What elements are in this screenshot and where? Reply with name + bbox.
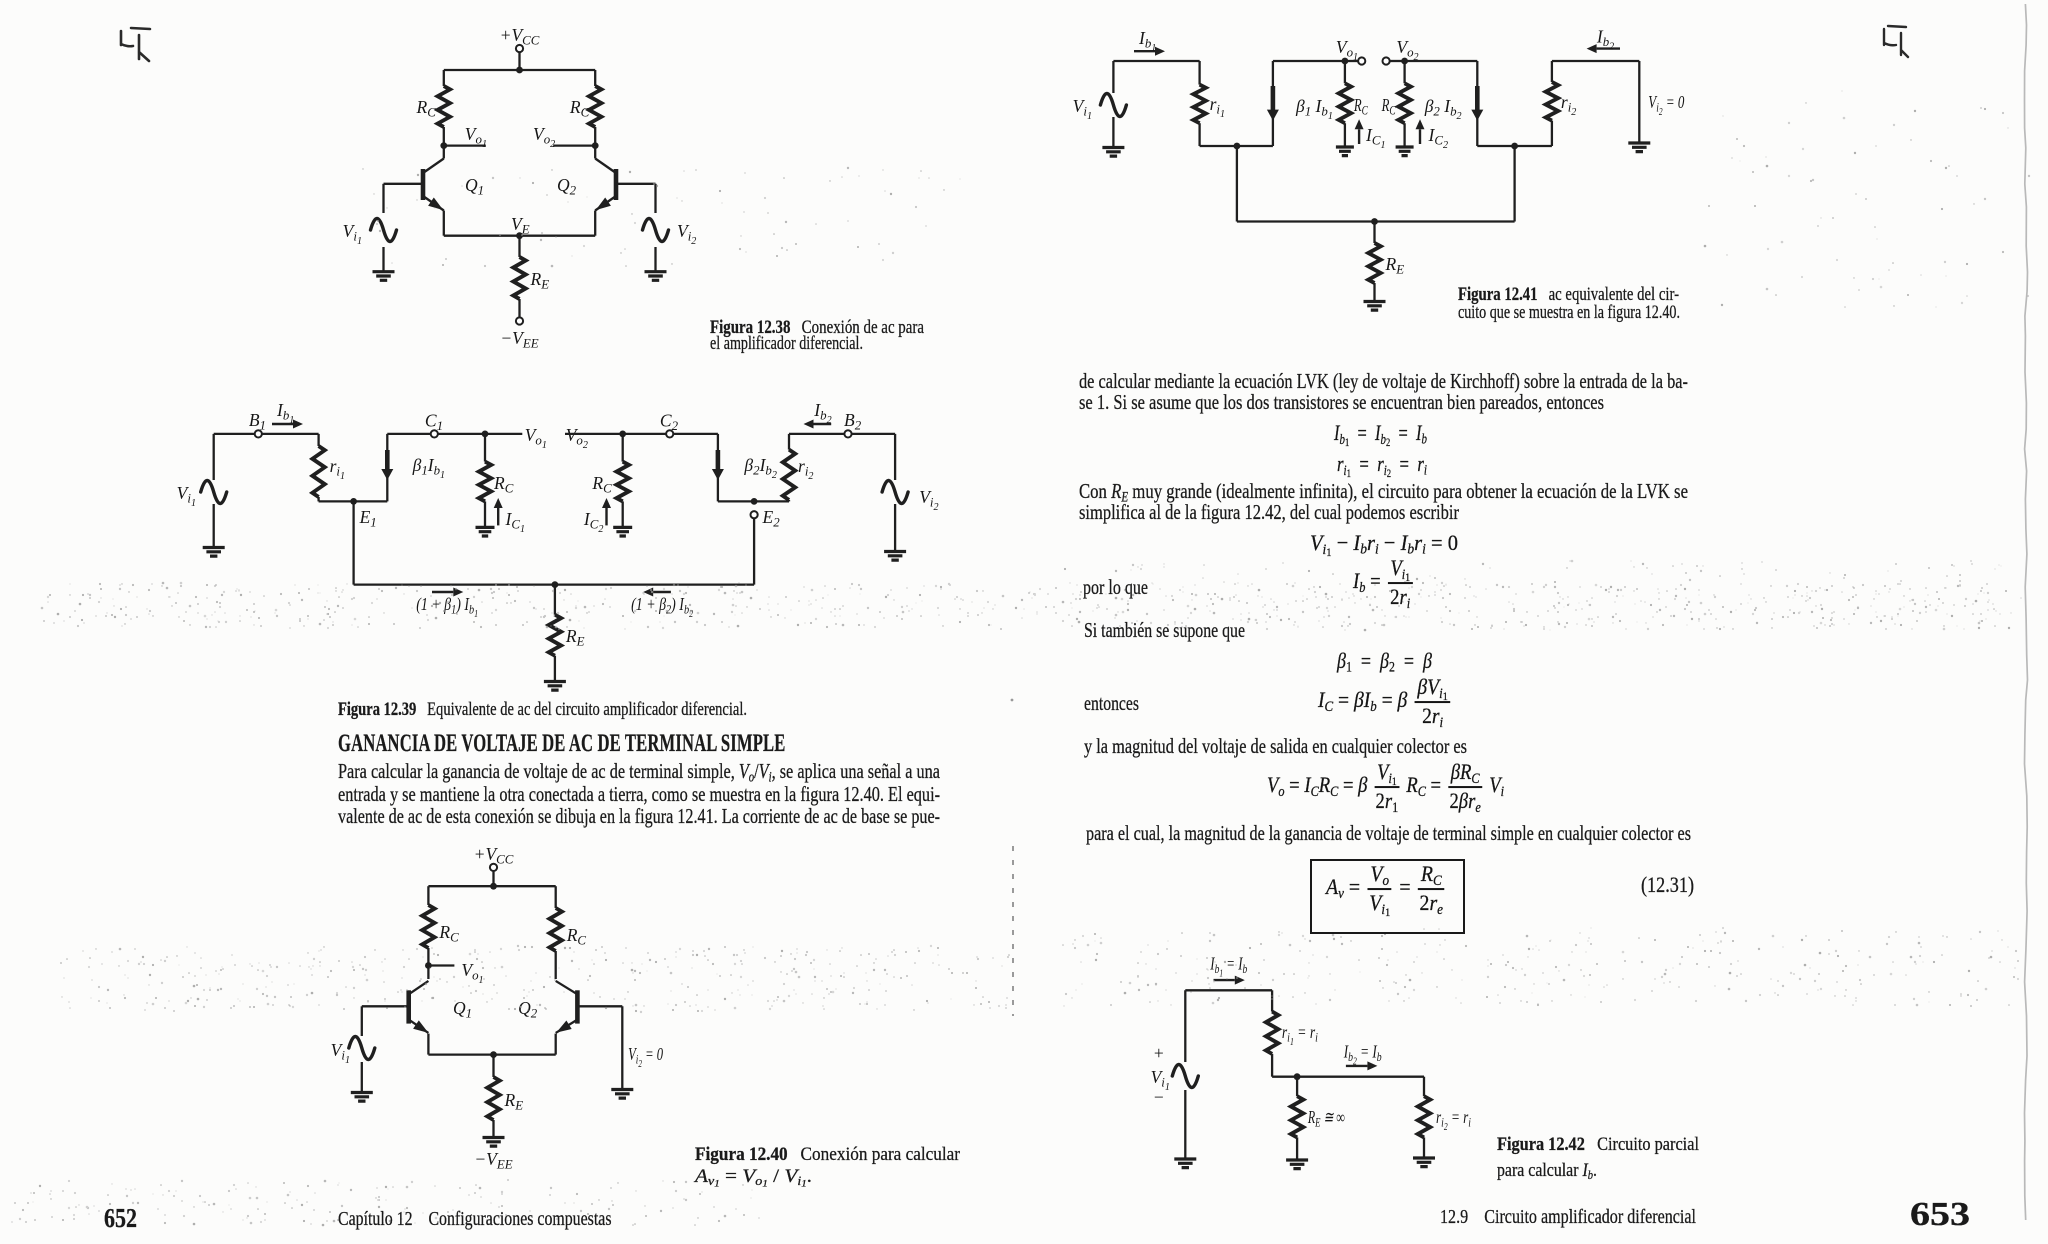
- ground RE (Fig 12.42): [1286, 1160, 1308, 1169]
- svg-text:RC: RC: [1381, 95, 1396, 118]
- svg-text:(1 + β2) Ib2: (1 + β2) Ib2: [631, 594, 693, 620]
- svg-text:ri1: ri1: [1210, 94, 1225, 120]
- svg-text:RC: RC: [493, 473, 514, 496]
- ground Vi1 (Fig 12.40): [351, 1093, 373, 1102]
- wire RC2 to node Vo2 (Fig 12.38): [594, 127, 596, 146]
- wire ri2 to B2 (Fig 12.39): [789, 434, 844, 450]
- svg-text:IC2: IC2: [583, 509, 603, 535]
- resistor RC1 (Fig 12.41): [1339, 61, 1368, 123]
- resistor RE infinite (Fig 12.42): [1291, 1096, 1345, 1137]
- resistor ri1 (Fig 12.41): [1193, 85, 1225, 124]
- source Vi1 (Fig 12.40): [331, 1037, 375, 1067]
- wire base 1 (Fig 12.40): [362, 1006, 409, 1036]
- svg-text:RE: RE: [530, 269, 550, 292]
- resistor RC1 (Fig 12.39): [479, 434, 514, 502]
- svg-text:+VCC: +VCC: [500, 25, 540, 48]
- svg-text:RE ≅ ∞: RE ≅ ∞: [1307, 1107, 1345, 1130]
- node RC1 top (Fig 12.39): [482, 431, 489, 438]
- wire ri1 top (Fig 12.42): [1271, 990, 1273, 1011]
- node Vo2 (Fig 12.38): [533, 124, 599, 150]
- wire emitter rail (Fig 12.38): [444, 235, 595, 237]
- ground RE (Fig 12.39): [544, 682, 566, 691]
- current source beta1 Ib1 (Fig 12.39): [381, 434, 445, 502]
- ground RC1 (Fig 12.39): [476, 527, 495, 536]
- wire C1 to Vo1 node (Fig 12.39): [438, 433, 522, 435]
- ground Vi1 (Fig 12.39): [203, 548, 225, 557]
- transistor Q1 (Fig 12.38): [423, 159, 484, 211]
- wire Vi1 up (Fig 12.39): [213, 434, 215, 480]
- ground Vi2 (Fig 12.40): [611, 1090, 633, 1099]
- node VE (Fig 12.38): [511, 214, 530, 239]
- svg-text:Ib2: Ib2: [813, 400, 831, 426]
- svg-text:C2: C2: [660, 411, 679, 434]
- transistor Q2 (Fig 12.40): [518, 981, 577, 1033]
- svg-text:E1: E1: [359, 507, 377, 530]
- wire left collector drop (Fig 12.38): [443, 70, 445, 86]
- wire emitter bottom rail (Fig 12.39): [354, 583, 754, 585]
- svg-text:−: −: [1154, 1087, 1164, 1107]
- current arrow (1+beta1)Ib1 (Fig 12.39): [416, 588, 478, 621]
- resistor ri1 (Fig 12.39): [312, 446, 345, 497]
- wire source up (Fig 12.42): [1184, 990, 1186, 1062]
- wire Vi1 to ground (Fig 12.38): [382, 247, 384, 271]
- svg-text:−VEE: −VEE: [500, 328, 538, 351]
- svg-text:RE: RE: [504, 1090, 524, 1113]
- label Vi2 = 0 (Fig 12.41): [1648, 92, 1684, 118]
- wire base 2 (Fig 12.38): [616, 184, 656, 213]
- svg-text:RC: RC: [415, 97, 436, 120]
- terminal B1 (Fig 12.39): [249, 410, 266, 438]
- wire ri1 bottom (Fig 12.39): [319, 497, 388, 501]
- wire VCC drop (Fig 12.38): [518, 52, 520, 70]
- wire RC2 to ground (Fig 12.39): [622, 501, 624, 527]
- terminal +VCC (Fig 12.40): [474, 844, 514, 871]
- svg-text:Vo2: Vo2: [1396, 37, 1418, 63]
- source Vi2 (Fig 12.38): [643, 219, 697, 248]
- wire top left (Fig 12.41): [1113, 61, 1199, 85]
- terminal Vo2 (Fig 12.41): [1383, 37, 1419, 65]
- resistor RC right (Fig 12.40): [550, 908, 587, 951]
- node E2 junction (Fig 12.41): [1511, 143, 1518, 150]
- source Vi1 (Fig 12.42): [1172, 1065, 1198, 1088]
- ground Vi2 (Fig 12.38): [645, 272, 667, 281]
- svg-text:B2: B2: [844, 410, 862, 433]
- node E2 (Fig 12.39): [751, 498, 781, 530]
- resistor RC2 (Fig 12.41): [1381, 61, 1411, 123]
- current arrow Ib1 (Fig 12.42): [1214, 976, 1245, 985]
- svg-text:Vi2: Vi2: [677, 221, 696, 247]
- ground Vi2 (Fig 12.41): [1628, 143, 1650, 152]
- resistor ri2 (Fig 12.39): [783, 450, 814, 502]
- label Vi2 = 0 (Fig 12.40): [628, 1044, 663, 1070]
- wire ri1 bottom (Fig 12.41): [1200, 123, 1273, 146]
- svg-text:Vo1: Vo1: [1336, 37, 1358, 63]
- svg-text:IC1: IC1: [505, 509, 525, 535]
- node E1 (Fig 12.39): [350, 498, 377, 530]
- svg-text:Ib1: Ib1: [276, 400, 294, 426]
- wire Vi2 to ground (Fig 12.39): [894, 504, 896, 551]
- wire emitter rail (Fig 12.40): [428, 1053, 555, 1055]
- svg-text:Q1: Q1: [465, 175, 484, 198]
- svg-text:RE: RE: [1385, 254, 1405, 277]
- wire B2 to Vi2 (Fig 12.39): [852, 434, 896, 480]
- wire Vi1 to ground (Fig 12.40): [361, 1062, 363, 1092]
- node RE tap (Fig 12.39): [552, 581, 559, 588]
- wire Vo2 node to C2 (Fig 12.39): [565, 433, 666, 435]
- current source beta2 Ib2 (Fig 12.41): [1424, 61, 1484, 146]
- wire RE to ground (Fig 12.41): [1373, 283, 1375, 301]
- wire Q1 emitter drop (Fig 12.40): [427, 1034, 429, 1055]
- wire right collector drop (Fig 12.38): [594, 70, 596, 86]
- wire VCC drop (Fig 12.40): [492, 871, 494, 886]
- source Vi2 (Fig 12.39): [882, 481, 938, 514]
- svg-text:ri1 = ri: ri1 = ri: [1282, 1022, 1318, 1048]
- terminal -VEE (Fig 12.38): [500, 317, 538, 350]
- resistor ri1 = ri (Fig 12.42): [1266, 1012, 1318, 1054]
- resistor RE (Fig 12.40): [487, 1077, 523, 1120]
- wire E1 drop (Fig 12.39): [352, 501, 354, 584]
- svg-text:+: +: [1154, 1043, 1164, 1063]
- wire cs1 to C1 (Fig 12.39): [387, 433, 430, 435]
- wire RE to ground (Fig 12.42): [1296, 1137, 1298, 1159]
- resistor ri2 = ri (Fig 12.42): [1418, 1096, 1472, 1137]
- wire source to ground (Fig 12.42): [1184, 1090, 1186, 1159]
- node RE tap (Fig 12.41): [1371, 218, 1378, 225]
- source Vi1 (Fig 12.38): [343, 219, 397, 248]
- label Vo2 (Fig 12.39): [566, 425, 588, 451]
- wire RE to ground (Fig 12.39): [554, 656, 556, 681]
- current arrow IC2 (Fig 12.41): [1416, 119, 1448, 151]
- svg-text:(1 + β1) Ib1: (1 + β1) Ib1: [416, 594, 478, 620]
- svg-text:RC: RC: [438, 922, 459, 945]
- svg-text:Vi2 = 0: Vi2 = 0: [1648, 92, 1684, 118]
- svg-text:−VEE: −VEE: [474, 1149, 512, 1172]
- node VCC rail junction (Fig 12.38): [516, 67, 523, 74]
- node Vo1 (Fig 12.41): [1336, 37, 1358, 64]
- resistor ri2 (Fig 12.41): [1546, 82, 1577, 146]
- wire RE to ground (Fig 12.40): [492, 1120, 494, 1137]
- wire VE to RE (Fig 12.38): [518, 236, 520, 257]
- label + Vi1 - (Fig 12.42): [1151, 1043, 1170, 1107]
- resistor RE (Fig 12.39): [549, 615, 585, 656]
- terminal C2 (Fig 12.39): [660, 411, 679, 438]
- resistor RE (Fig 12.41): [1368, 243, 1404, 283]
- wire Q2 emitter drop (Fig 12.40): [555, 1034, 557, 1055]
- label Ib2 = Ib (Fig 12.42): [1343, 1042, 1382, 1068]
- svg-text:Vi1: Vi1: [177, 483, 196, 509]
- wire E2 drop (Fig 12.41): [1513, 146, 1515, 222]
- wire ri2 to top right corner (Fig 12.41): [1552, 61, 1639, 82]
- svg-text:Ib2 = Ib: Ib2 = Ib: [1343, 1042, 1382, 1068]
- wire cs2 to E2 (Fig 12.39): [718, 500, 789, 502]
- wire Q1 emitter drop (Fig 12.38): [443, 211, 445, 236]
- wire RE to -VEE (Fig 12.38): [518, 299, 520, 318]
- current source beta1 Ib1 (Fig 12.41): [1267, 61, 1333, 146]
- svg-text:Vi1: Vi1: [343, 221, 362, 247]
- current arrow Ib2 (Fig 12.41): [1587, 27, 1620, 54]
- wire cs1 to Vo1 (Fig 12.41): [1273, 60, 1345, 62]
- current arrow IC2 (Fig 12.39): [583, 498, 611, 535]
- svg-text:Vo1: Vo1: [525, 425, 547, 451]
- wire Vi1 to ground (Fig 12.41): [1112, 117, 1114, 147]
- wire RC1 to node Vo1 (Fig 12.38): [443, 127, 445, 146]
- label Vo1 (Fig 12.39): [525, 425, 547, 451]
- wire base 1 (Fig 12.38): [384, 184, 424, 213]
- terminal Vo1 (Fig 12.41): [1345, 57, 1365, 64]
- wire cs2 to ri2 (Fig 12.41): [1477, 145, 1552, 147]
- current arrow Ib1 (Fig 12.39): [272, 400, 303, 429]
- current arrow Ib2 (Fig 12.39): [804, 400, 832, 429]
- scan mark top-right corner: [1884, 26, 1908, 57]
- page gutter dashes: [1011, 699, 1014, 1016]
- source Vi1 (Fig 12.39): [177, 481, 227, 510]
- node RE junction (Fig 12.42): [1294, 1073, 1301, 1080]
- wire junction to RE (Fig 12.40): [492, 1055, 494, 1077]
- wire bottom to ri2 (Fig 12.42): [1297, 1076, 1424, 1078]
- current arrow IC1 (Fig 12.39): [494, 498, 525, 535]
- svg-text:Q1: Q1: [453, 998, 472, 1021]
- label Ib1 = Ib (Fig 12.42): [1210, 954, 1248, 980]
- svg-text:B1: B1: [249, 410, 266, 433]
- svg-text:β2 Ib2: β2 Ib2: [1424, 96, 1462, 122]
- ground Vi1 (Fig 12.38): [373, 272, 395, 281]
- wire RC2 to ground (Fig 12.41): [1403, 123, 1405, 146]
- transistor Q2 (Fig 12.38): [557, 159, 616, 211]
- wire left collector drop (Fig 12.40): [427, 886, 429, 905]
- wire E2 drop (Fig 12.39): [753, 518, 755, 584]
- svg-text:ri2 = ri: ri2 = ri: [1436, 1107, 1471, 1133]
- svg-text:Vo2: Vo2: [566, 425, 588, 451]
- svg-text:C1: C1: [425, 411, 443, 434]
- resistor RC2 (Fig 12.39): [591, 434, 629, 502]
- node Vo2 (Fig 12.41): [1401, 58, 1408, 65]
- ground RE (Fig 12.41): [1364, 302, 1386, 311]
- current arrow (1+beta2)Ib2 (Fig 12.39): [631, 588, 693, 621]
- svg-text:Ib1 = Ib: Ib1 = Ib: [1210, 954, 1248, 980]
- wire RC1 to node Vo1 (Fig 12.40): [427, 948, 429, 966]
- wire top rail (Fig 12.38): [444, 69, 595, 71]
- node Vo1 (Fig 12.40): [425, 960, 484, 986]
- wire Q1 collector (Fig 12.40): [427, 966, 429, 980]
- svg-text:Q2: Q2: [557, 175, 577, 198]
- node emitter junction (Fig 12.40): [490, 1051, 497, 1058]
- node RC2 top (Fig 12.39): [619, 431, 626, 438]
- wire RC1 to ground (Fig 12.41): [1344, 123, 1346, 146]
- svg-text:RC: RC: [1353, 95, 1368, 118]
- svg-text:RC: RC: [566, 925, 587, 948]
- wire Vo2 to cs2 (Fig 12.41): [1405, 60, 1478, 62]
- wire ri1 bottom (Fig 12.42): [1272, 1054, 1297, 1077]
- wire Vi1 up (Fig 12.41): [1112, 61, 1114, 93]
- wire RE top (Fig 12.41): [1373, 222, 1375, 244]
- svg-text:Vi2 = 0: Vi2 = 0: [628, 1044, 663, 1070]
- svg-text:β1Ib1: β1Ib1: [412, 455, 446, 481]
- svg-text:RC: RC: [569, 97, 590, 120]
- wire Vi1 down to ground (Fig 12.39): [213, 504, 215, 547]
- svg-text:+VCC: +VCC: [474, 844, 514, 867]
- svg-text:Vo2: Vo2: [533, 124, 555, 150]
- current arrow IC1 (Fig 12.41): [1355, 119, 1386, 151]
- ground ri2 (Fig 12.42): [1413, 1158, 1435, 1167]
- current arrow Ib1 (Fig 12.41): [1134, 28, 1165, 56]
- node Vo1 (Fig 12.38): [440, 124, 487, 150]
- ground Vi1 (Fig 12.41): [1102, 148, 1124, 157]
- wire Q1 collector (Fig 12.38): [443, 146, 445, 159]
- wire RE top (Fig 12.39): [554, 585, 556, 615]
- terminal +VCC (Fig 12.38): [500, 25, 540, 52]
- svg-text:ri2: ri2: [1561, 92, 1576, 118]
- ground RC2 (Fig 12.39): [613, 527, 632, 536]
- svg-text:β1 Ib1: β1 Ib1: [1295, 96, 1333, 122]
- svg-text:ri2: ri2: [798, 456, 813, 482]
- ground Vi1 (Fig 12.42): [1174, 1159, 1196, 1168]
- wire ri2 to ground (Fig 12.42): [1423, 1137, 1425, 1157]
- wire top rail (Fig 12.40): [428, 885, 555, 887]
- node VCC rail junction (Fig 12.40): [490, 883, 497, 890]
- svg-text:Vi1: Vi1: [331, 1040, 350, 1066]
- resistor RE (Fig 12.38): [513, 257, 549, 299]
- wire RC1 to ground (Fig 12.39): [484, 501, 486, 527]
- page right edge line: [2025, 4, 2028, 1220]
- svg-text:RC: RC: [591, 473, 612, 496]
- wire RE top (Fig 12.42): [1296, 1077, 1298, 1097]
- svg-text:RE: RE: [565, 626, 585, 649]
- svg-text:IC2: IC2: [1428, 125, 1448, 151]
- current source beta2 Ib2 (Fig 12.39): [712, 434, 777, 502]
- transistor Q1 (Fig 12.40): [409, 981, 472, 1033]
- svg-text:β2Ib2: β2Ib2: [743, 455, 777, 481]
- svg-text:IC1: IC1: [1365, 125, 1385, 151]
- wire ri2 top (Fig 12.42): [1423, 1077, 1425, 1097]
- resistor RC left (Fig 12.40): [422, 905, 459, 948]
- wire Vi2 to ground (Fig 12.38): [654, 247, 656, 271]
- resistor RC right (Fig 12.38): [569, 86, 602, 127]
- wire B1 left segment (Fig 12.39): [214, 433, 255, 435]
- ground RC2 (Fig 12.41): [1396, 147, 1414, 156]
- terminal C1 (Fig 12.39): [425, 411, 443, 438]
- node E1 junction (Fig 12.41): [1234, 143, 1241, 150]
- svg-text:VE: VE: [511, 214, 530, 237]
- wire E1 drop (Fig 12.41): [1236, 146, 1238, 222]
- wire Q2 emitter drop (Fig 12.38): [594, 211, 596, 236]
- wire top (Fig 12.42): [1185, 989, 1272, 991]
- ground Vi2 (Fig 12.39): [884, 552, 906, 561]
- wire B1 to ri1 (Fig 12.39): [262, 434, 319, 446]
- wire C2 to cs2 (Fig 12.39): [673, 433, 718, 435]
- ground -VEE (Fig 12.40): [474, 1138, 512, 1172]
- svg-text:E2: E2: [762, 507, 781, 530]
- current arrow Ib2 (Fig 12.42): [1346, 1061, 1378, 1070]
- wire Q2 collector (Fig 12.38): [594, 146, 596, 159]
- scan mark top-left corner: [121, 28, 150, 61]
- svg-text:ri1: ri1: [330, 456, 345, 482]
- wire bottom rail (Fig 12.41): [1237, 220, 1515, 222]
- wire Q2 collector (Fig 12.40): [555, 951, 557, 979]
- ground RC1 (Fig 12.41): [1336, 147, 1354, 156]
- terminal B2 (Fig 12.39): [844, 410, 862, 438]
- svg-text:Vi2: Vi2: [919, 487, 938, 513]
- svg-text:Vo1: Vo1: [461, 960, 483, 986]
- resistor RC left (Fig 12.38): [415, 86, 450, 127]
- wire right collector drop (Fig 12.40): [555, 886, 557, 908]
- source Vi1 (Fig 12.41): [1073, 94, 1127, 123]
- wire Vi2 drop (Fig 12.41): [1638, 61, 1640, 143]
- wire base 2 (Fig 12.40): [577, 1006, 622, 1089]
- svg-text:Vi1: Vi1: [1073, 96, 1092, 122]
